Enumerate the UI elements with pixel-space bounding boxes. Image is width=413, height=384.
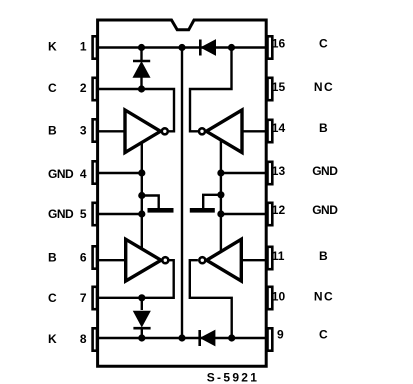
pin 12 — [268, 203, 273, 225]
wire pin8 to pin9 (bottom K/C rail) — [97, 337, 267, 339]
node pin7/D3 — [138, 294, 145, 301]
pin 8 — [93, 328, 97, 350]
node pin8/center line — [178, 334, 185, 341]
junction dots — [138, 44, 235, 342]
wire pin3 to inverter A input — [97, 130, 125, 132]
svg-text:K: K — [48, 40, 57, 54]
op-amp U4 inverter D — [207, 239, 242, 281]
pin 7 — [93, 287, 97, 309]
svg-text:B: B — [48, 251, 57, 265]
node tap left — [138, 192, 145, 199]
pin 15 — [268, 78, 273, 100]
pin 9 — [268, 328, 273, 350]
wire gnd spine right — [220, 140, 222, 252]
svg-text:GND: GND — [312, 203, 338, 217]
pin 2 — [93, 78, 97, 100]
node tap right — [217, 191, 224, 198]
svg-text:B: B — [48, 123, 57, 137]
pin 6 — [93, 246, 97, 268]
pin 16 — [268, 36, 273, 58]
pin 11 — [268, 247, 273, 269]
wire pin6 to inverter C input — [97, 259, 126, 261]
wire gnd spine left — [141, 143, 143, 250]
pin 4 — [93, 161, 97, 183]
substrate bar right — [190, 208, 215, 213]
op-amp U1 inverter A — [125, 110, 161, 153]
svg-text:NC: NC — [314, 289, 334, 303]
node pin2/D1 — [138, 85, 145, 92]
svg-text:4: 4 — [80, 167, 87, 181]
wire pin1 to pin16 (top K/C rail) — [97, 46, 267, 48]
node pin1/D1 — [138, 44, 145, 51]
svg-text:B: B — [319, 249, 328, 263]
node pin16/D2 — [228, 44, 235, 51]
pin 5 — [93, 203, 97, 225]
substrate bar left — [148, 208, 174, 213]
svg-text:1: 1 — [80, 40, 87, 54]
pin 3 — [93, 119, 97, 141]
diode D4 (bottom rail, cathode to center line) — [200, 330, 215, 346]
svg-text:15: 15 — [272, 80, 286, 94]
svg-text:GND: GND — [48, 167, 74, 181]
svg-text:K: K — [48, 332, 57, 346]
pin 14 — [268, 120, 273, 142]
node pin13/spine — [217, 169, 224, 176]
svg-text:B: B — [319, 121, 328, 135]
svg-text:8: 8 — [80, 332, 87, 346]
diode D3 (pin7 anode to pin8 cathode) — [133, 298, 150, 338]
right pin name labels — [312, 37, 338, 342]
left pin name labels — [48, 40, 74, 346]
svg-text:10: 10 — [272, 289, 286, 303]
pin 10 — [268, 287, 273, 309]
wire substrate tap right — [203, 195, 221, 208]
svg-text:13: 13 — [272, 164, 286, 178]
svg-text:5: 5 — [80, 207, 87, 221]
wire pin4 to gnd spine left — [97, 172, 142, 174]
right pin numbers — [272, 37, 286, 342]
wire pin12 to gnd spine right — [221, 213, 267, 215]
node pin1/center line — [178, 44, 185, 51]
svg-text:9: 9 — [277, 327, 284, 341]
pin 13 — [268, 162, 273, 184]
svg-text:7: 7 — [80, 291, 87, 305]
svg-text:C: C — [319, 327, 328, 341]
svg-text:16: 16 — [272, 37, 286, 51]
wire center cathode line — [181, 48, 183, 339]
diode D2 (top rail, cathode to center line) — [200, 40, 215, 56]
wire pin2 to inverter A output — [97, 89, 174, 131]
node pin8/D3 — [138, 334, 145, 341]
op-amp U2 inverter B — [206, 110, 242, 153]
wire substrate tap left — [142, 196, 159, 209]
svg-text:6: 6 — [80, 251, 87, 265]
svg-text:2: 2 — [80, 81, 87, 95]
svg-text:12: 12 — [272, 203, 286, 217]
wire pin13 to gnd spine right — [221, 172, 267, 174]
node pin4/spine — [138, 169, 145, 176]
node pin5/spine — [138, 210, 145, 217]
svg-text:C: C — [48, 291, 57, 305]
IC package outline with index notch — [98, 20, 267, 366]
svg-text:14: 14 — [272, 121, 286, 135]
wire pin5 to gnd spine left — [97, 213, 142, 215]
svg-text:NC: NC — [314, 80, 334, 94]
wire pin16 junction down to inverter B output — [190, 48, 232, 132]
svg-text:S-5921: S-5921 — [207, 370, 260, 384]
wire pin11 to inverter D input — [241, 259, 267, 261]
svg-text:3: 3 — [80, 123, 87, 137]
wire pin7 to inverter C output — [97, 260, 174, 298]
svg-text:C: C — [48, 81, 57, 95]
diode D1 (pin2 anode to pin1 cathode) — [133, 48, 150, 90]
left pin numbers — [80, 40, 87, 346]
wire pin14 to inverter B input — [242, 130, 267, 132]
svg-text:GND: GND — [312, 164, 338, 178]
wire inverter D output to pin9 junction — [190, 260, 232, 338]
svg-text:C: C — [319, 37, 328, 51]
op-amp U3 inverter C — [126, 239, 161, 281]
pin 1 — [93, 36, 97, 58]
node pin9/D4 — [228, 334, 235, 341]
svg-text:GND: GND — [48, 207, 74, 221]
node pin12/spine — [217, 210, 224, 217]
svg-text:11: 11 — [272, 249, 285, 263]
